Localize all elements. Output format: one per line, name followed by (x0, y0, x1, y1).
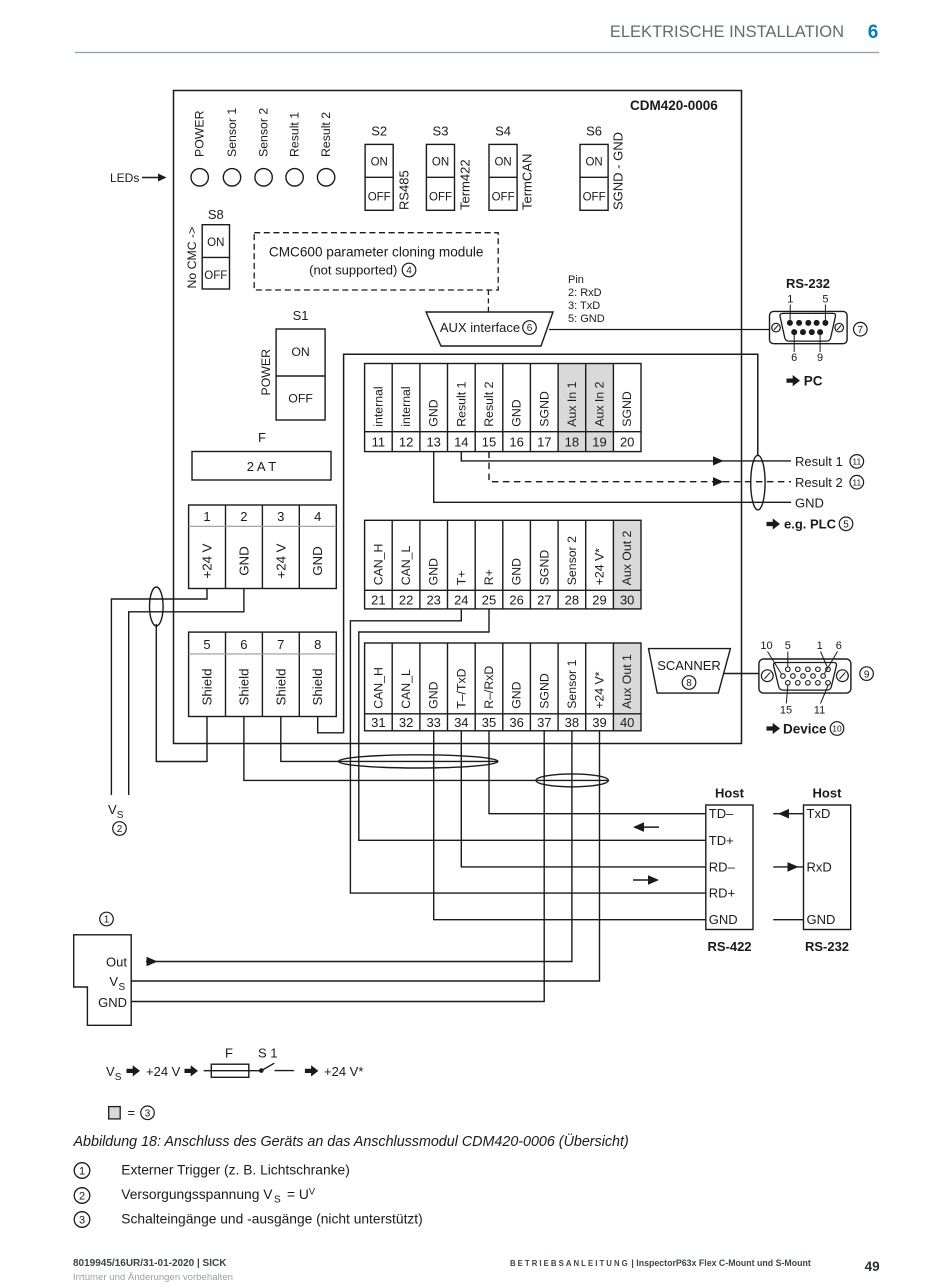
svg-text:17: 17 (537, 434, 551, 449)
svg-text:T+: T+ (454, 571, 468, 586)
svg-text:6: 6 (868, 22, 879, 43)
svg-text:GND: GND (310, 546, 325, 576)
wire Result 1 from pin 14 (461, 452, 791, 461)
svg-text:RD–: RD– (709, 859, 736, 874)
svg-text:32: 32 (399, 715, 413, 730)
svg-text:GND: GND (427, 681, 441, 708)
svg-text:8: 8 (314, 637, 321, 652)
svg-text:4: 4 (406, 266, 412, 277)
svg-text:1: 1 (817, 640, 823, 652)
wire GND pin 33 to host GND (434, 731, 706, 920)
svg-text:10: 10 (832, 724, 842, 734)
wire SCANNER to HD15 connector (724, 673, 760, 675)
svg-text:S6: S6 (586, 124, 602, 139)
circled 8 (682, 676, 696, 690)
switch S4 (489, 144, 517, 210)
svg-text:ON: ON (585, 157, 602, 169)
DB9 pins row 1-5 (787, 320, 829, 326)
svg-text:39: 39 (592, 715, 606, 730)
legend gray box (109, 1107, 121, 1119)
svg-text:15: 15 (482, 434, 496, 449)
svg-text:5: 5 (785, 640, 791, 652)
svg-text:Shield: Shield (200, 669, 215, 706)
svg-text:POWER: POWER (193, 110, 207, 157)
connector DB9 (7) (770, 311, 848, 343)
wire GND RS-232 (773, 919, 803, 921)
svg-text:S 1: S 1 (258, 1046, 278, 1061)
svg-text:25: 25 (482, 592, 496, 607)
to PLC arrow label (767, 517, 837, 532)
svg-text:internal: internal (371, 386, 385, 426)
svg-text:internal: internal (399, 386, 413, 426)
svg-text:1: 1 (203, 509, 210, 524)
svg-text:4: 4 (314, 509, 321, 524)
circled 11 (Result 1) (850, 455, 864, 469)
svg-text:CAN_L: CAN_L (399, 669, 413, 709)
svg-text:2: 2 (79, 1191, 85, 1203)
svg-text:1: 1 (79, 1166, 85, 1178)
wire shield terminal 8 to module frame (318, 717, 344, 733)
host RS-232 box (804, 805, 851, 930)
svg-text:GND: GND (795, 495, 824, 510)
svg-text:3: 3 (277, 509, 284, 524)
svg-text:TD–: TD– (709, 806, 734, 821)
svg-text:CAN_L: CAN_L (399, 545, 413, 585)
svg-text:ON: ON (494, 157, 511, 169)
CMC600 dashed module box (254, 233, 498, 290)
svg-text:2: RxD: 2: RxD (568, 287, 602, 299)
LED Sensor 2 (255, 169, 272, 186)
wire +24V* pin 39 to trigger Vs (131, 731, 599, 981)
svg-text:OFF: OFF (368, 191, 391, 203)
switch S6 (580, 144, 608, 210)
svg-text:2: 2 (117, 824, 123, 835)
wire shield terminal 7 to host cable (281, 717, 498, 762)
svg-text:Result 1: Result 1 (287, 112, 301, 157)
svg-text:3: TxD: 3: TxD (568, 300, 600, 312)
wire GND terminal 2 to Vs (129, 589, 244, 796)
svg-text:15: 15 (780, 705, 792, 717)
svg-text:26: 26 (509, 592, 523, 607)
svg-text:18: 18 (565, 434, 579, 449)
svg-text:8: 8 (686, 678, 692, 689)
header chapter title (610, 22, 878, 43)
svg-text:GND: GND (510, 399, 524, 426)
svg-text:Device: Device (783, 721, 827, 736)
circled 9 (860, 667, 874, 681)
wire shield terminal 6 to trigger cable (244, 717, 609, 781)
svg-text:GND: GND (807, 912, 836, 927)
svg-text:Irrtümer und Änderungen vorbeh: Irrtümer und Änderungen vorbehalten (73, 1272, 233, 1283)
svg-text:F: F (258, 430, 266, 445)
svg-text:Result 2: Result 2 (319, 112, 333, 157)
switch S8 (202, 225, 229, 289)
wire SGND pin 37 to trigger GND (131, 731, 544, 1002)
svg-text:27: 27 (537, 592, 551, 607)
legend item 2 (74, 1187, 316, 1206)
circled 10 (830, 722, 844, 736)
inner terminal area box (344, 354, 758, 733)
DB9 pin labels (787, 294, 828, 365)
svg-text:24: 24 (454, 592, 468, 607)
circled 3 (legend) (141, 1106, 155, 1120)
svg-text:Shield: Shield (273, 669, 288, 706)
terminal strip 11-20 (558, 364, 586, 452)
svg-text:GND: GND (427, 558, 441, 585)
svg-text:Result 1: Result 1 (795, 454, 843, 469)
circled 2 (113, 822, 127, 836)
svg-text:SGND: SGND (537, 673, 551, 709)
svg-text:6: 6 (527, 323, 533, 334)
svg-text:CDM420-0006: CDM420-0006 (630, 98, 718, 113)
terminal strip 21-30 (613, 520, 641, 609)
svg-text:BETRIEBSANLEITUNG: BETRIEBSANLEITUNG (510, 1259, 630, 1268)
svg-text:6: 6 (791, 352, 797, 364)
svg-text:| InspectorP63x Flex C-Mount u: | InspectorP63x Flex C-Mount und S-Mount (631, 1258, 810, 1268)
svg-text:9: 9 (864, 669, 870, 680)
svg-text:Sensor 1: Sensor 1 (225, 108, 239, 157)
terminal strip 31-40 (613, 643, 641, 731)
svg-text:8019945/16UR/31-01-2020 | SICK: 8019945/16UR/31-01-2020 | SICK (73, 1258, 227, 1269)
svg-text:Abbildung 18: Anschluss des Ge: Abbildung 18: Anschluss des Geräts an da… (73, 1132, 629, 1150)
host cable ellipse (339, 755, 498, 768)
svg-text:GND: GND (427, 399, 441, 426)
svg-text:GND: GND (236, 546, 251, 576)
switch S2 (365, 144, 393, 210)
power cable ellipse (150, 587, 164, 626)
svg-text:Term422: Term422 (458, 159, 473, 210)
svg-text:Aux In 2: Aux In 2 (593, 381, 607, 426)
circled 4 (402, 263, 416, 277)
HD15 pins (781, 667, 831, 685)
svg-text:Aux In 1: Aux In 1 (565, 381, 579, 426)
svg-text:TermCAN: TermCAN (520, 154, 535, 210)
svg-text:28: 28 (565, 592, 579, 607)
svg-text:16: 16 (509, 434, 523, 449)
svg-text:GND: GND (709, 912, 738, 927)
LED Result 1 (286, 169, 303, 186)
svg-text:5: 5 (822, 294, 828, 306)
svg-text:Sensor 1: Sensor 1 (565, 659, 579, 708)
svg-text:RS-232: RS-232 (805, 939, 849, 954)
pin assignment note (568, 274, 605, 325)
formula Vs to +24V* (106, 1064, 198, 1083)
circled 11 (Result 2) (850, 475, 864, 489)
circled 1 (100, 912, 114, 926)
svg-text:CAN_H: CAN_H (371, 544, 385, 586)
svg-text:GND: GND (510, 558, 524, 585)
svg-text:6: 6 (836, 640, 842, 652)
svg-text:Result 1: Result 1 (454, 381, 468, 426)
svg-text:7: 7 (858, 325, 864, 336)
svg-text:Out: Out (106, 954, 127, 969)
svg-text:5: GND: 5: GND (568, 313, 605, 325)
svg-text:+24 V*: +24 V* (324, 1064, 363, 1079)
svg-text:34: 34 (454, 715, 468, 730)
trigger Out arrowhead (147, 957, 158, 967)
circled 6 (523, 321, 537, 335)
svg-text:ON: ON (291, 345, 309, 359)
svg-text:3: 3 (79, 1215, 85, 1227)
svg-text:9: 9 (817, 352, 823, 364)
svg-text:T–/TxD: T–/TxD (454, 668, 468, 708)
legend item 1 (74, 1163, 350, 1179)
svg-text:Shield: Shield (310, 669, 325, 706)
svg-text:GND: GND (510, 681, 524, 708)
wire R+ pin 25 to host TD+ (359, 609, 706, 840)
svg-text:Result 2: Result 2 (482, 381, 496, 426)
svg-text:OFF: OFF (492, 191, 515, 203)
to Device arrow label (767, 721, 828, 736)
svg-text:R+: R+ (482, 569, 496, 585)
svg-text:S1: S1 (293, 308, 309, 323)
svg-text:33: 33 (426, 715, 440, 730)
svg-text:TxD: TxD (807, 806, 831, 821)
svg-text:23: 23 (426, 592, 440, 607)
svg-text:11: 11 (852, 477, 861, 487)
connector HD15 (9) (759, 659, 851, 693)
svg-text:11: 11 (814, 705, 825, 717)
svg-text:19: 19 (592, 434, 606, 449)
svg-text:1: 1 (104, 915, 110, 926)
svg-text:Sensor 2: Sensor 2 (256, 108, 270, 157)
svg-text:6: 6 (240, 637, 247, 652)
HD15 pin labels (760, 640, 841, 717)
svg-text:AUX interface: AUX interface (440, 320, 520, 335)
svg-text:+24 V: +24 V (200, 543, 215, 578)
trigger cable ellipse (536, 774, 608, 787)
wire T+ pin 24 to host RD+ (350, 609, 705, 893)
svg-text:+24 V*: +24 V* (593, 671, 607, 708)
power terminal block 1-4 (189, 505, 337, 589)
svg-text:SGND: SGND (537, 550, 551, 586)
svg-text:S: S (119, 982, 126, 993)
svg-text:Shield: Shield (236, 669, 251, 706)
svg-text:F: F (225, 1046, 233, 1061)
wire T-/TxD pin 34 to host RD- (461, 731, 706, 867)
svg-text:21: 21 (371, 592, 385, 607)
svg-text:37: 37 (537, 715, 551, 730)
SCANNER trapezoid (649, 649, 731, 694)
svg-text:RD+: RD+ (709, 886, 735, 901)
svg-text:V: V (108, 802, 117, 817)
svg-text:Aux Out 2: Aux Out 2 (620, 530, 634, 585)
svg-text:= U: = U (287, 1187, 309, 1202)
svg-text:(not supported): (not supported) (309, 263, 397, 278)
wire shield terminal 5 to power cable (156, 624, 207, 762)
svg-text:+24 V: +24 V (146, 1064, 181, 1079)
svg-text:=: = (128, 1105, 136, 1120)
svg-text:POWER: POWER (259, 349, 273, 396)
dashed link CMC to AUX (487, 290, 489, 312)
arrow host to device (TD) (633, 822, 659, 832)
svg-text:3: 3 (145, 1109, 151, 1120)
shield terminal block 5-8 (189, 632, 337, 716)
svg-text:+24 V: +24 V (273, 543, 288, 578)
svg-text:Aux Out 1: Aux Out 1 (620, 654, 634, 709)
svg-text:40: 40 (620, 715, 634, 730)
svg-text:No CMC ->: No CMC -> (185, 227, 199, 289)
svg-text:ON: ON (371, 157, 388, 169)
svg-text:+24 V*: +24 V* (593, 548, 607, 585)
to PC arrow label (787, 373, 823, 388)
svg-text:Result 2: Result 2 (795, 475, 843, 490)
svg-text:2: 2 (240, 509, 247, 524)
svg-text:OFF: OFF (204, 270, 227, 282)
LEDs arrow (142, 174, 167, 182)
legend item 3 (74, 1212, 423, 1228)
svg-text:31: 31 (371, 715, 385, 730)
circled 7 (854, 322, 868, 336)
svg-text:SGND - GND: SGND - GND (611, 132, 626, 210)
LED POWER (191, 169, 208, 186)
svg-text:S: S (115, 1072, 122, 1083)
svg-text:SGND: SGND (620, 391, 634, 427)
svg-text:12: 12 (399, 434, 413, 449)
fuse 2 A T (192, 452, 331, 481)
LED Result 2 (317, 169, 334, 186)
wire Result 2 from pin 15 (dashed) (489, 452, 791, 482)
svg-text:V: V (106, 1064, 115, 1079)
svg-text:S2: S2 (371, 124, 387, 139)
wire RxD with arrow toward device (773, 862, 803, 872)
svg-text:Sensor 2: Sensor 2 (565, 536, 579, 585)
svg-text:V: V (109, 974, 118, 989)
svg-text:SCANNER: SCANNER (657, 658, 721, 673)
svg-text:V: V (309, 1187, 316, 1198)
LED Sensor 1 (223, 169, 240, 186)
module outer box CDM420-0006 (174, 91, 742, 744)
switch S3 (426, 144, 454, 210)
svg-text:5: 5 (203, 637, 210, 652)
svg-text:49: 49 (865, 1259, 880, 1274)
svg-text:S: S (274, 1195, 281, 1206)
svg-text:13: 13 (426, 434, 440, 449)
svg-text:PC: PC (804, 373, 823, 388)
external trigger box (light barrier) (74, 935, 132, 1026)
DB9 pins row 6-9 (791, 329, 823, 335)
svg-text:ELEKTRISCHE INSTALLATION: ELEKTRISCHE INSTALLATION (610, 23, 844, 41)
svg-text:14: 14 (454, 434, 468, 449)
svg-text:GND: GND (98, 995, 127, 1010)
svg-text:22: 22 (399, 592, 413, 607)
svg-text:11: 11 (372, 434, 386, 449)
output labels Result 1 / Result 2 / GND (795, 454, 843, 510)
svg-text:Externer Trigger (z. B. Lichts: Externer Trigger (z. B. Lichtschranke) (121, 1163, 349, 1178)
svg-text:S4: S4 (495, 124, 511, 139)
arrow device to host (RD) (633, 875, 659, 885)
svg-text:LEDs: LEDs (110, 171, 139, 185)
circled 5 (839, 517, 853, 531)
svg-text:30: 30 (620, 592, 634, 607)
svg-text:S: S (117, 810, 124, 821)
svg-text:S3: S3 (433, 124, 449, 139)
node Vs supply (108, 802, 124, 821)
svg-text:5: 5 (843, 520, 849, 531)
svg-text:OFF: OFF (288, 392, 313, 406)
svg-text:Host: Host (813, 786, 843, 801)
svg-text:38: 38 (565, 715, 579, 730)
svg-text:RS-232: RS-232 (786, 276, 830, 291)
svg-text:OFF: OFF (583, 191, 606, 203)
svg-text:11: 11 (852, 457, 861, 467)
svg-text:R–/RxD: R–/RxD (482, 666, 496, 709)
svg-text:RS485: RS485 (397, 170, 412, 210)
svg-text:S8: S8 (208, 207, 224, 222)
svg-text:e.g. PLC: e.g. PLC (784, 517, 837, 532)
svg-text:Pin: Pin (568, 274, 584, 286)
svg-text:RxD: RxD (807, 859, 832, 874)
svg-text:35: 35 (482, 715, 496, 730)
svg-text:CAN_H: CAN_H (371, 667, 385, 709)
host RS-422 box (706, 805, 753, 930)
wire R-/RxD pin 35 to host TD- (489, 731, 706, 814)
wire TxD with arrow toward host (773, 809, 803, 819)
wire GND from pin 13 (434, 452, 791, 503)
svg-text:29: 29 (592, 592, 606, 607)
svg-text:7: 7 (277, 637, 284, 652)
svg-text:1: 1 (787, 294, 793, 306)
svg-text:OFF: OFF (429, 191, 452, 203)
svg-text:RS-422: RS-422 (707, 939, 751, 954)
svg-text:Versorgungsspannung V: Versorgungsspannung V (121, 1187, 273, 1202)
svg-text:Host: Host (715, 786, 745, 801)
wire +24V terminal 1 to Vs (111, 589, 207, 796)
svg-text:20: 20 (620, 434, 634, 449)
svg-text:ON: ON (207, 237, 224, 249)
svg-text:ON: ON (432, 157, 449, 169)
svg-text:Schalteingänge und -ausgänge (: Schalteingänge und -ausgänge (nicht unte… (121, 1212, 422, 1227)
wire AUX to RS-232 connector (549, 329, 770, 331)
PLC cable ellipse (751, 455, 765, 510)
wire Sensor 1 pin 38 to trigger Out (146, 731, 572, 962)
switch S1 (276, 329, 325, 420)
svg-text:2 A T: 2 A T (247, 459, 276, 474)
svg-text:36: 36 (509, 715, 523, 730)
svg-text:10: 10 (760, 640, 772, 652)
AUX interface trapezoid (426, 312, 553, 346)
svg-text:TD+: TD+ (709, 833, 734, 848)
header rule (75, 52, 879, 54)
svg-text:CMC600 parameter cloning modul: CMC600 parameter cloning module (269, 245, 484, 260)
svg-text:SGND: SGND (537, 391, 551, 427)
